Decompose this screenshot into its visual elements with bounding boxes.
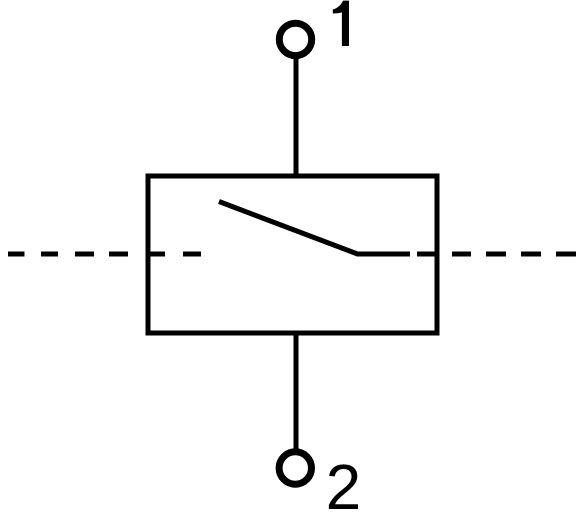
- wire pin 1 to switch body: [294, 56, 299, 176]
- moving contact blade: [219, 202, 410, 255]
- actuator dashed line right: [417, 252, 576, 257]
- switch body S1: [148, 176, 437, 333]
- pin label 1: [333, 1, 349, 46]
- actuator dashed line left: [8, 252, 201, 257]
- terminal 2: [279, 452, 311, 484]
- wire switch body to pin 2: [294, 333, 299, 451]
- svg-text:2: 2: [326, 451, 362, 518]
- terminal 1: [279, 23, 311, 55]
